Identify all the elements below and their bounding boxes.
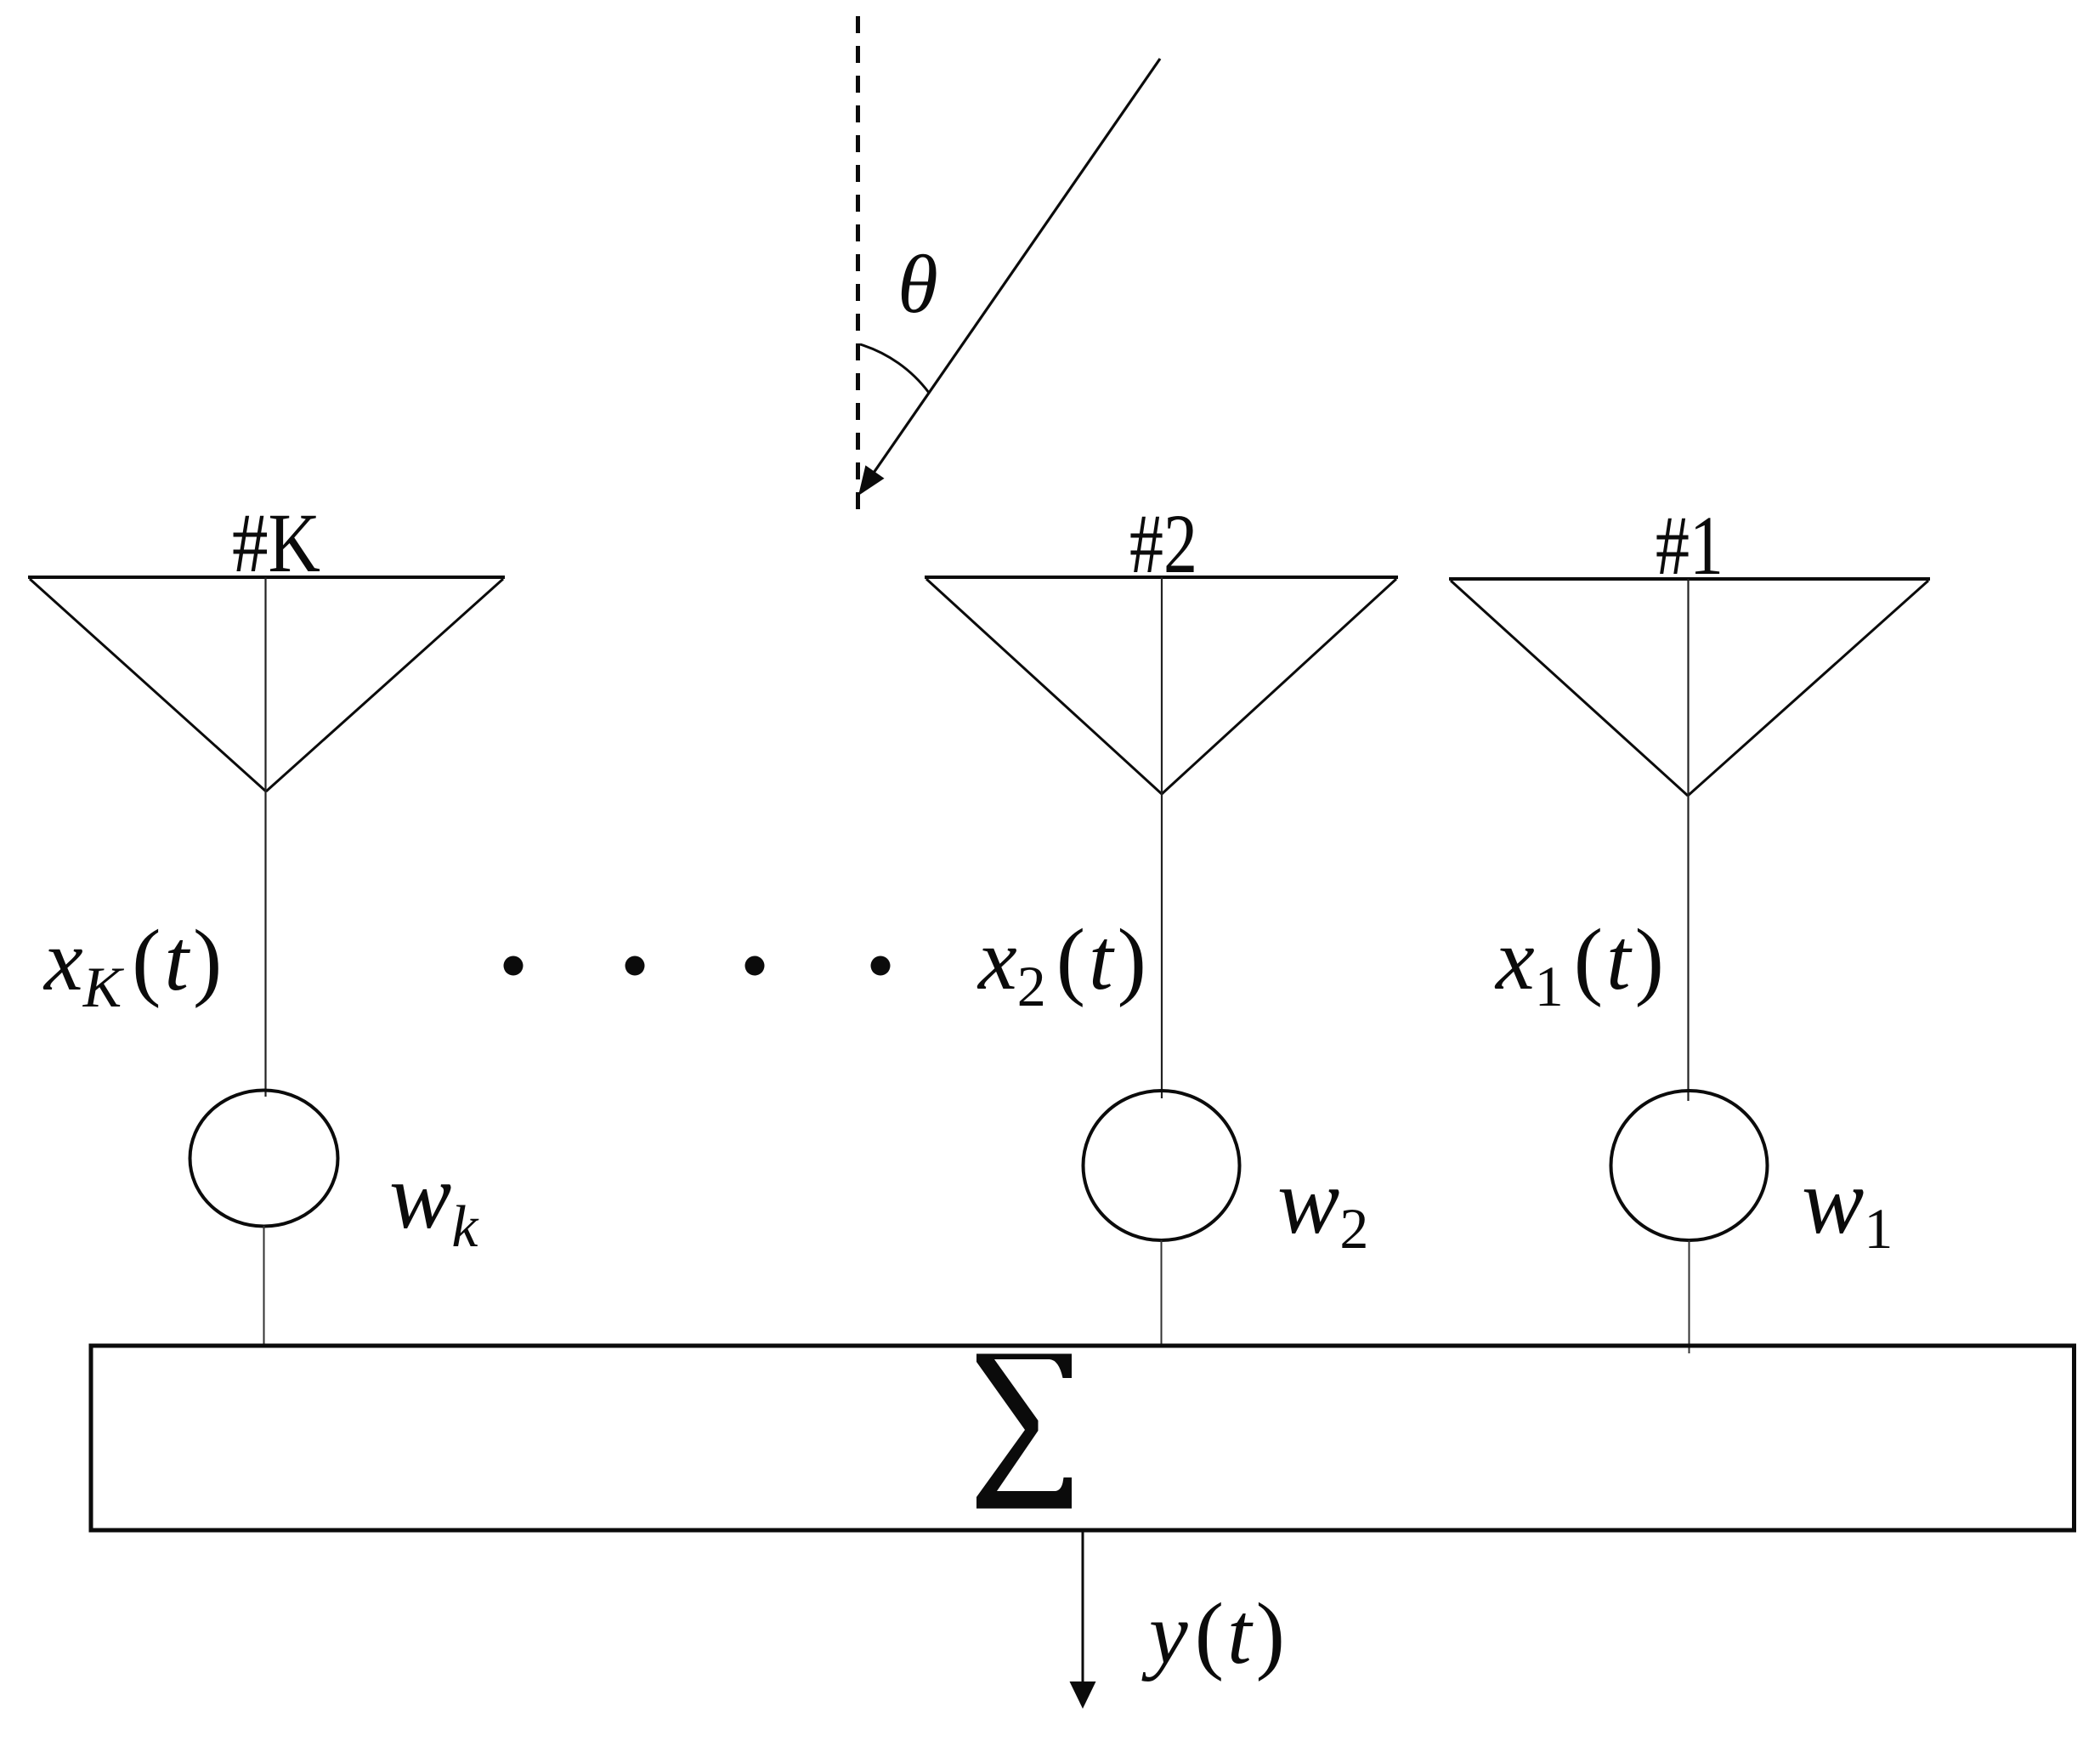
antenna #K left side: [30, 579, 266, 791]
antenna #2 feed wire: [1161, 577, 1163, 1098]
antenna #2 right side: [1162, 579, 1396, 794]
weight circle w2: [1084, 1091, 1240, 1240]
dashed vertical reference line (array normal): [856, 16, 860, 510]
wire wK circle to summation box: [263, 1226, 265, 1347]
ellipsis dots between antennas: [504, 956, 891, 976]
antenna #K feed wire: [264, 577, 266, 1097]
wire w2 circle to summation box: [1161, 1240, 1163, 1347]
antenna #1 top bar: [1449, 577, 1930, 581]
angle arc between normal and incoming ray: [860, 344, 929, 393]
antenna #2 left side: [926, 579, 1162, 794]
incoming signal arrow (wavefront direction): [872, 59, 1160, 475]
svg-text:θ: θ: [897, 239, 938, 330]
svg-text:x2(t): x2(t): [976, 911, 1146, 1018]
antenna #K top bar: [28, 576, 505, 579]
svg-text:y(t): y(t): [1141, 1585, 1285, 1682]
weight circle w1: [1611, 1091, 1768, 1240]
incoming signal arrowhead: [858, 465, 885, 496]
svg-text:#1: #1: [1656, 498, 1724, 593]
summation sigma symbol: [976, 1354, 1072, 1509]
summation box: [91, 1346, 2075, 1530]
antenna #1 right side: [1688, 581, 1928, 796]
antenna #1 feed wire: [1687, 579, 1689, 1101]
antenna #2 top bar: [925, 576, 1398, 579]
output wire: [1082, 1530, 1084, 1683]
svg-text:xK(t): xK(t): [42, 912, 222, 1019]
weight circle wK: [190, 1091, 338, 1227]
svg-text:#K: #K: [232, 496, 320, 590]
svg-text:#2: #2: [1129, 496, 1197, 591]
antenna #1 left side: [1451, 581, 1688, 796]
wire w1 circle to summation box: [1689, 1240, 1690, 1353]
output arrowhead: [1070, 1681, 1096, 1709]
antenna #K right side: [266, 579, 503, 791]
svg-text:x1(t): x1(t): [1494, 911, 1664, 1018]
